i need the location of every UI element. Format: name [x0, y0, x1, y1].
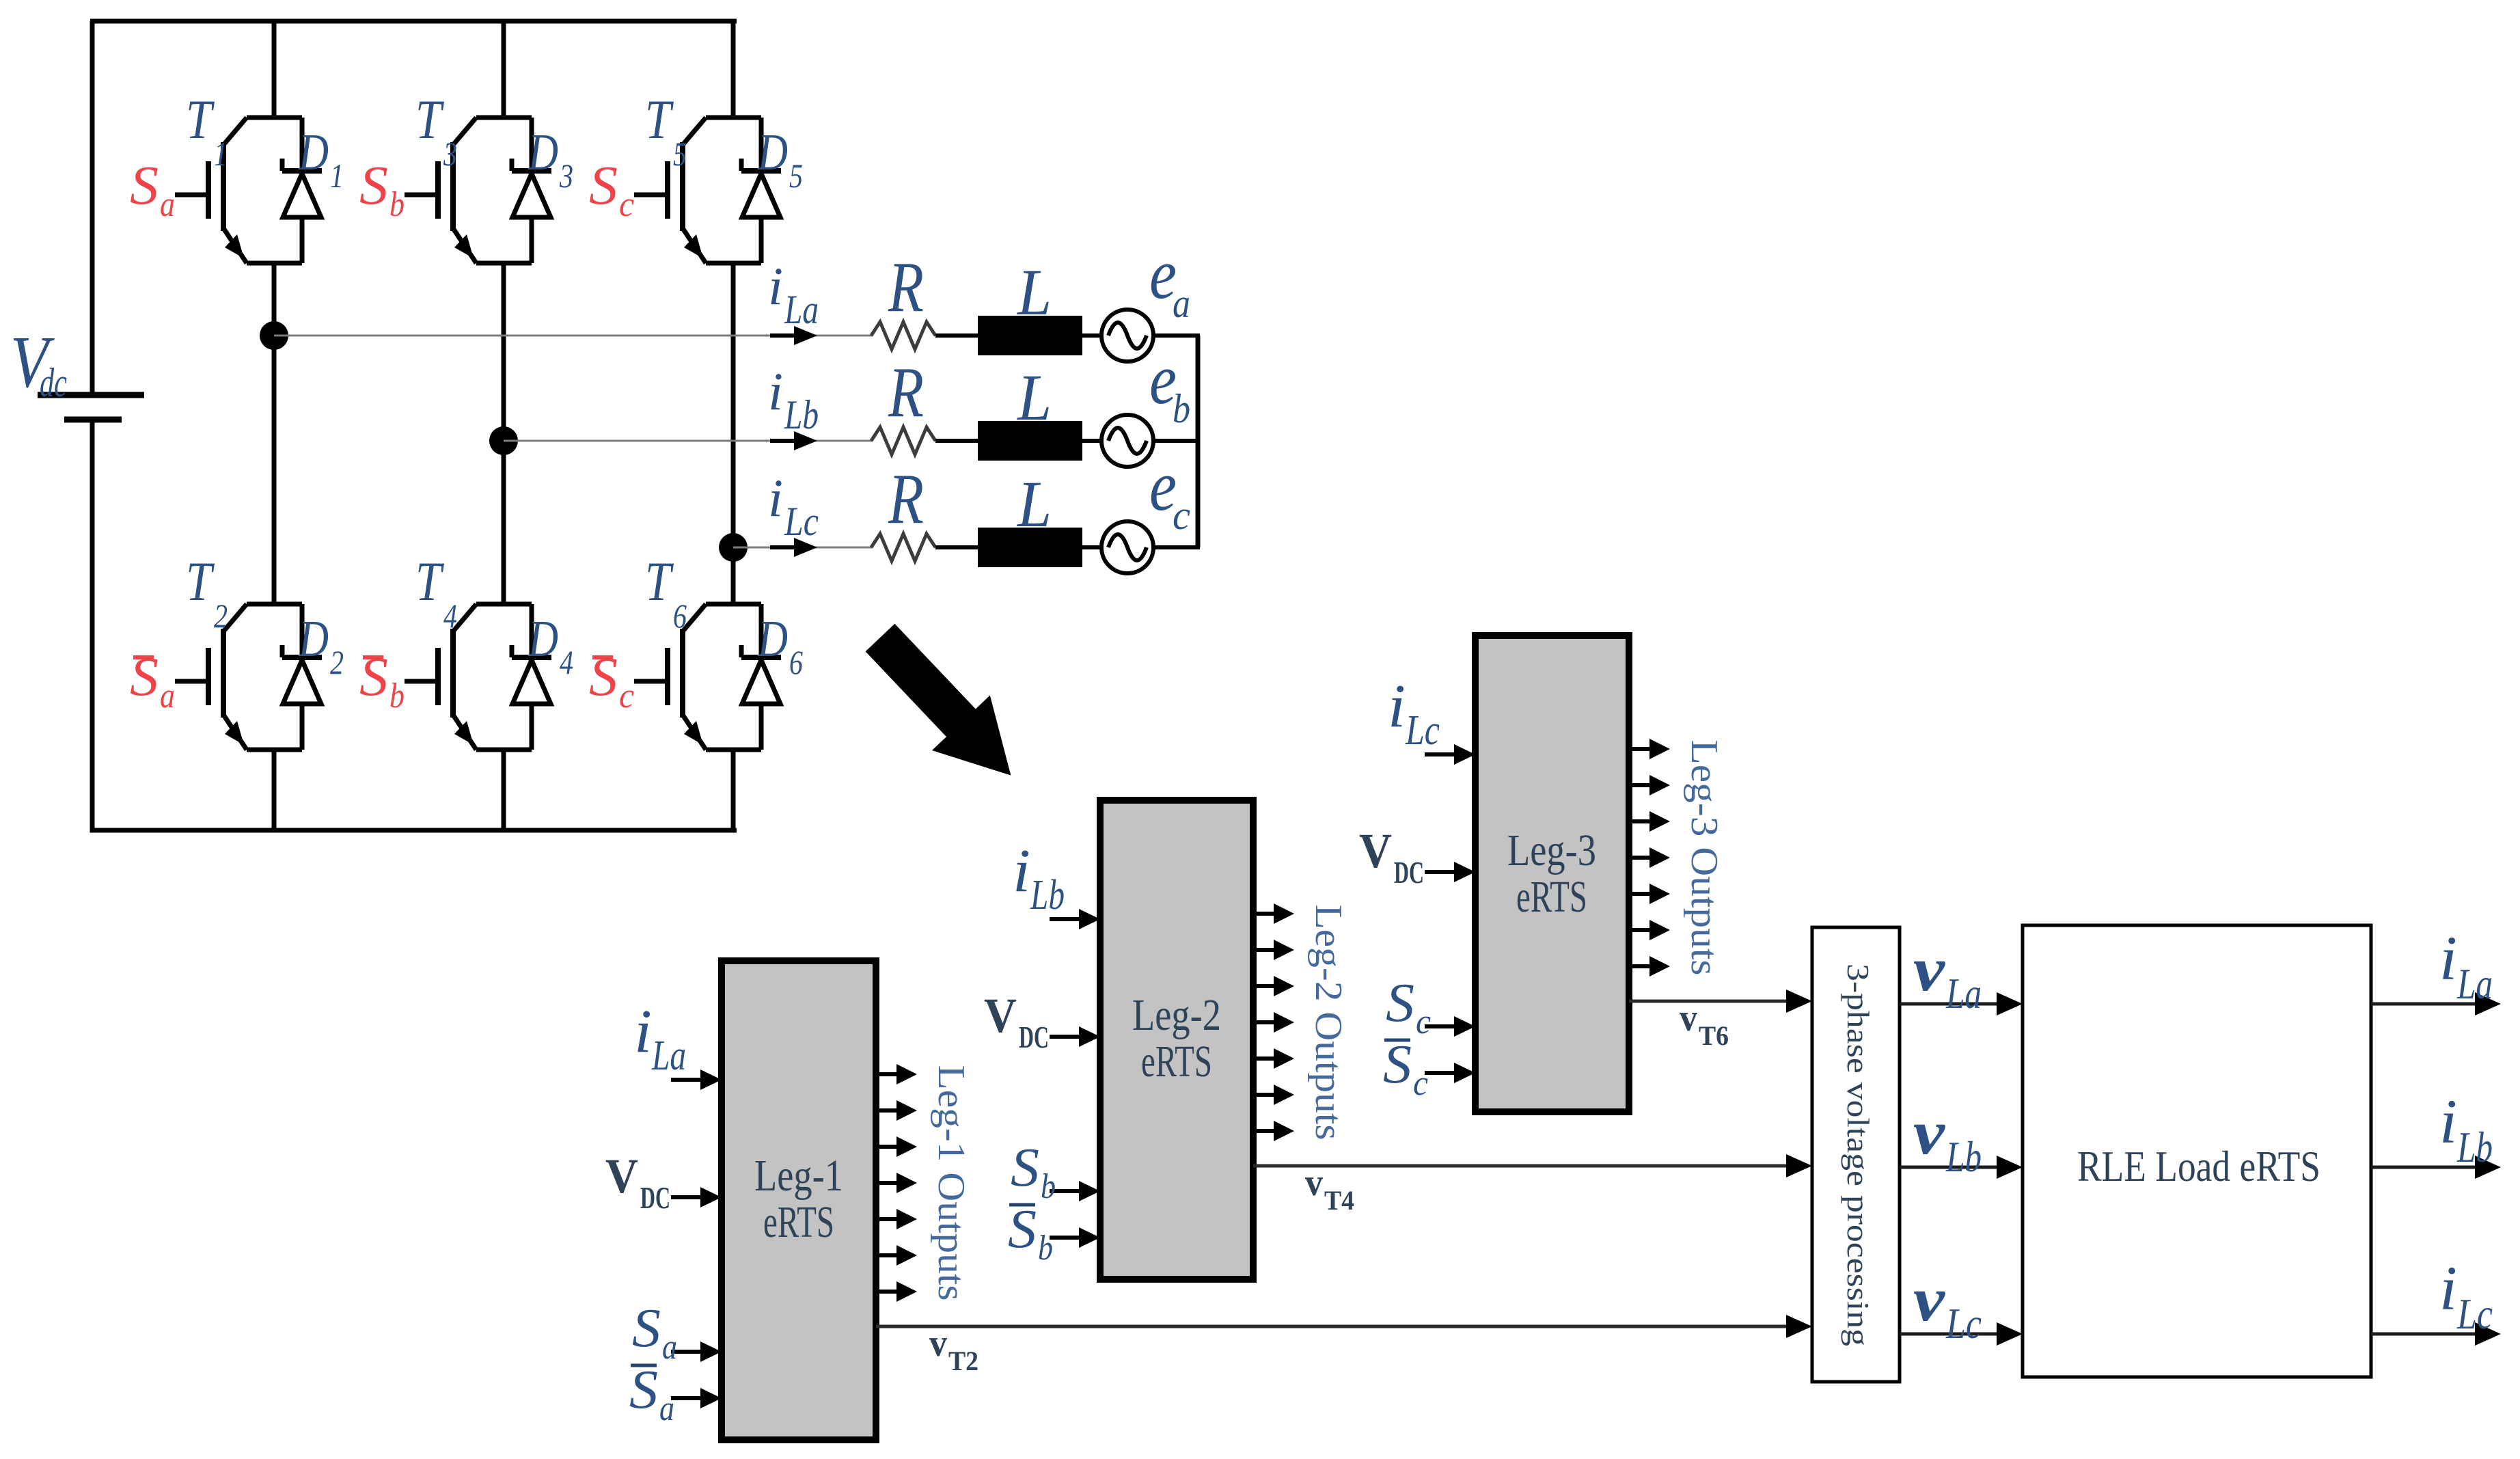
diode D3: [512, 118, 551, 263]
svg-text:D: D: [757, 124, 788, 181]
svg-text:V: V: [984, 988, 1017, 1043]
wire R-L phase b: [935, 439, 978, 443]
wire leg3 top: [731, 21, 736, 118]
svg-text:Leg-3: Leg-3: [1507, 826, 1596, 875]
svg-text:S: S: [629, 1360, 658, 1420]
svg-text:R: R: [888, 352, 924, 432]
svg-text:4: 4: [560, 643, 573, 681]
input arrow Sb to Leg-2: [1050, 1181, 1100, 1201]
svg-text:i: i: [1013, 837, 1030, 905]
svg-text:b: b: [1038, 1229, 1053, 1268]
input arrow Sa to Leg-1: [671, 1341, 722, 1362]
wire vT4: [1253, 1164, 1789, 1168]
svg-text:1: 1: [214, 135, 228, 173]
block Leg-1 eRTS: [722, 961, 876, 1440]
svg-text:b: b: [1173, 386, 1190, 431]
svg-text:T: T: [645, 550, 674, 612]
wire R-L phase a: [935, 333, 978, 338]
transistor T4: [405, 604, 532, 750]
block 3-phase voltage processing: [1812, 927, 1900, 1382]
resistor R phase c: [871, 534, 935, 561]
svg-text:i: i: [634, 998, 652, 1065]
svg-text:i: i: [768, 256, 783, 316]
svg-text:T: T: [186, 550, 215, 612]
input arrow Sc-bar to Leg-3: [1425, 1063, 1475, 1083]
svg-text:T6: T6: [1699, 1020, 1729, 1051]
wire top DC bus: [90, 19, 737, 24]
input arrow iLc to Leg-3: [1425, 744, 1475, 765]
svg-text:Lb: Lb: [784, 392, 819, 437]
svg-text:b: b: [389, 677, 405, 715]
svg-text:a: a: [160, 185, 175, 224]
diode D1: [282, 118, 322, 263]
input arrow Sc to Leg-3: [1425, 1016, 1475, 1037]
wire leg1 top: [272, 21, 277, 118]
svg-text:RLE Load eRTS: RLE Load eRTS: [2077, 1142, 2320, 1190]
svg-text:S: S: [1008, 1199, 1037, 1259]
wire L-e phase c: [1082, 545, 1104, 549]
input arrow VDC to Leg-3: [1425, 862, 1475, 882]
svg-text:i: i: [2439, 923, 2457, 993]
svg-text:2: 2: [330, 643, 344, 681]
svg-text:Lc: Lc: [784, 499, 819, 544]
svg-text:Lc: Lc: [1945, 1299, 1982, 1348]
wire leg3 bottom: [731, 750, 736, 830]
svg-text:Lb: Lb: [1945, 1132, 1982, 1181]
svg-text:S: S: [130, 156, 159, 216]
svg-text:D: D: [757, 610, 788, 668]
svg-text:La: La: [2456, 959, 2493, 1008]
svg-text:D: D: [298, 610, 329, 668]
diode D6: [741, 604, 781, 750]
wire leg2 top: [502, 21, 506, 118]
svg-text:dc: dc: [40, 360, 67, 405]
svg-text:a: a: [160, 677, 175, 715]
svg-text:2: 2: [214, 597, 228, 635]
svg-text:Lb: Lb: [2456, 1123, 2493, 1171]
svg-text:La: La: [784, 287, 819, 332]
transistor T5: [634, 118, 761, 263]
svg-text:c: c: [1173, 493, 1190, 538]
svg-text:i: i: [2439, 1087, 2457, 1156]
wire left DC rail lower and bottom bus: [92, 420, 737, 830]
input arrow Sa-bar to Leg-1: [671, 1388, 722, 1408]
svg-text:Lb: Lb: [1030, 872, 1065, 918]
svg-text:D: D: [528, 610, 558, 668]
block Leg-2 eRTS: [1100, 800, 1253, 1279]
svg-text:v: v: [1680, 997, 1697, 1039]
svg-text:T: T: [415, 550, 444, 612]
node phase c: [719, 533, 748, 562]
svg-text:S: S: [589, 156, 618, 216]
output arrows Leg-1: [876, 1064, 917, 1085]
svg-text:DC: DC: [1019, 1020, 1049, 1054]
inductor L phase c: [978, 528, 1082, 567]
svg-text:c: c: [619, 185, 634, 224]
svg-text:a: a: [1173, 281, 1190, 326]
diode D5: [741, 118, 781, 263]
svg-text:eRTS: eRTS: [1141, 1037, 1212, 1087]
svg-text:Leg-1 Outputs: Leg-1 Outputs: [930, 1065, 972, 1301]
wire vLa: [1900, 1003, 1999, 1006]
svg-text:La: La: [651, 1033, 686, 1079]
svg-text:D: D: [528, 124, 558, 181]
output arrow iLb: [2371, 1166, 2478, 1169]
wire vLc: [1900, 1333, 1999, 1336]
output arrow iLc: [2371, 1333, 2478, 1336]
node phase a: [260, 321, 288, 350]
svg-text:L: L: [1016, 256, 1052, 329]
AC source eb: [1101, 415, 1153, 467]
svg-text:c: c: [619, 677, 634, 715]
svg-text:Leg-2 Outputs: Leg-2 Outputs: [1307, 905, 1350, 1141]
wire vT2: [876, 1325, 1789, 1328]
wire e-bus phase a: [1153, 333, 1200, 338]
input arrow iLa to Leg-1: [671, 1069, 722, 1090]
wire left DC rail upper: [90, 21, 95, 395]
output arrows Leg-2: [1253, 903, 1294, 924]
svg-text:eRTS: eRTS: [1516, 872, 1587, 922]
wire leg2 middle: [502, 263, 506, 604]
svg-text:R: R: [888, 459, 924, 538]
output arrows Leg-3: [1629, 739, 1670, 759]
big arrow to block diagram: [851, 610, 1040, 803]
svg-text:v: v: [1913, 934, 1945, 1004]
wire phase b: [504, 440, 873, 442]
wire right neutral bus: [1196, 336, 1201, 547]
svg-text:DC: DC: [640, 1180, 670, 1215]
wire vT6: [1629, 1000, 1789, 1003]
svg-text:T: T: [645, 88, 674, 150]
svg-text:3: 3: [559, 156, 573, 195]
svg-text:S: S: [359, 156, 388, 216]
input arrow VDC to Leg-2: [1050, 1026, 1100, 1047]
svg-text:eRTS: eRTS: [763, 1197, 834, 1247]
resistor R phase a: [871, 322, 935, 349]
wire e-bus phase c: [1153, 545, 1200, 549]
svg-text:a: a: [659, 1389, 674, 1428]
wire phase a: [274, 335, 873, 337]
svg-text:Leg-1: Leg-1: [754, 1151, 843, 1201]
block RLE Load eRTS: [2023, 925, 2371, 1377]
diode D2: [282, 604, 322, 750]
svg-text:S: S: [632, 1298, 661, 1359]
svg-text:V: V: [1359, 823, 1392, 878]
transistor T2: [175, 604, 302, 750]
node phase b: [489, 426, 518, 455]
AC source ea: [1101, 310, 1153, 362]
svg-text:L: L: [1016, 361, 1052, 434]
svg-text:Leg-2: Leg-2: [1132, 990, 1221, 1040]
svg-text:1: 1: [330, 156, 344, 195]
svg-text:6: 6: [673, 597, 687, 635]
wire e-bus phase b: [1153, 439, 1200, 443]
current arrow iLa: [770, 326, 817, 345]
wire leg2 bottom: [502, 750, 506, 830]
AC source ec: [1101, 521, 1153, 573]
block Leg-3 eRTS: [1475, 636, 1629, 1112]
svg-text:S: S: [1386, 973, 1414, 1033]
wire leg3 middle: [731, 263, 736, 604]
wire R-L phase c: [935, 545, 978, 549]
wire leg1 bottom: [272, 750, 277, 830]
resistor R phase b: [871, 427, 935, 454]
svg-text:a: a: [662, 1328, 677, 1367]
input arrow VDC to Leg-1: [671, 1187, 722, 1208]
svg-text:b: b: [389, 185, 405, 224]
svg-text:c: c: [1413, 1064, 1428, 1103]
svg-text:S: S: [1011, 1138, 1039, 1198]
wire leg1 middle: [272, 263, 277, 604]
svg-text:v: v: [1913, 1264, 1945, 1334]
svg-text:S: S: [1383, 1035, 1412, 1095]
wire L-e phase b: [1082, 439, 1104, 443]
svg-text:D: D: [298, 124, 329, 181]
svg-text:3: 3: [443, 135, 457, 173]
svg-text:i: i: [768, 362, 783, 421]
svg-text:R: R: [888, 247, 924, 327]
svg-text:V: V: [605, 1149, 638, 1203]
transistor T1: [175, 118, 302, 263]
output arrow iLa: [2371, 1003, 2478, 1006]
transistor T3: [405, 118, 532, 263]
input arrow iLb to Leg-2: [1050, 909, 1100, 929]
svg-text:3-phase voltage processing: 3-phase voltage processing: [1841, 964, 1876, 1346]
svg-text:T4: T4: [1324, 1185, 1354, 1216]
battery Vdc positive plate: [38, 392, 144, 398]
svg-text:T: T: [415, 88, 444, 150]
svg-text:6: 6: [789, 643, 803, 681]
diode D4: [512, 604, 551, 750]
svg-text:L: L: [1016, 467, 1052, 541]
svg-text:Leg-3 Outputs: Leg-3 Outputs: [1683, 740, 1725, 976]
svg-text:Lc: Lc: [2456, 1290, 2493, 1338]
svg-text:v: v: [1913, 1097, 1945, 1167]
input arrow Sb-bar to Leg-2: [1050, 1227, 1100, 1248]
svg-text:i: i: [768, 468, 783, 528]
svg-text:c: c: [1416, 1003, 1431, 1041]
current arrow iLb: [770, 431, 817, 450]
svg-text:5: 5: [673, 135, 687, 173]
battery Vdc negative plate: [64, 417, 122, 423]
svg-text:T2: T2: [948, 1346, 978, 1376]
svg-text:v: v: [929, 1322, 947, 1365]
svg-text:b: b: [1041, 1167, 1056, 1206]
svg-text:DC: DC: [1394, 855, 1424, 890]
svg-text:v: v: [1305, 1162, 1323, 1204]
svg-text:Lc: Lc: [1405, 707, 1440, 754]
svg-text:i: i: [2439, 1253, 2457, 1323]
inductor L phase b: [978, 421, 1082, 461]
svg-text:T: T: [186, 88, 215, 150]
inductor L phase a: [978, 316, 1082, 355]
wire vLb: [1900, 1166, 1999, 1169]
current arrow iLc: [770, 538, 817, 557]
svg-text:La: La: [1945, 969, 1982, 1018]
svg-text:5: 5: [789, 156, 803, 195]
svg-text:4: 4: [443, 597, 457, 635]
wire L-e phase a: [1082, 333, 1104, 338]
transistor T6: [634, 604, 761, 750]
svg-text:i: i: [1388, 672, 1406, 740]
wire phase c: [733, 547, 873, 549]
